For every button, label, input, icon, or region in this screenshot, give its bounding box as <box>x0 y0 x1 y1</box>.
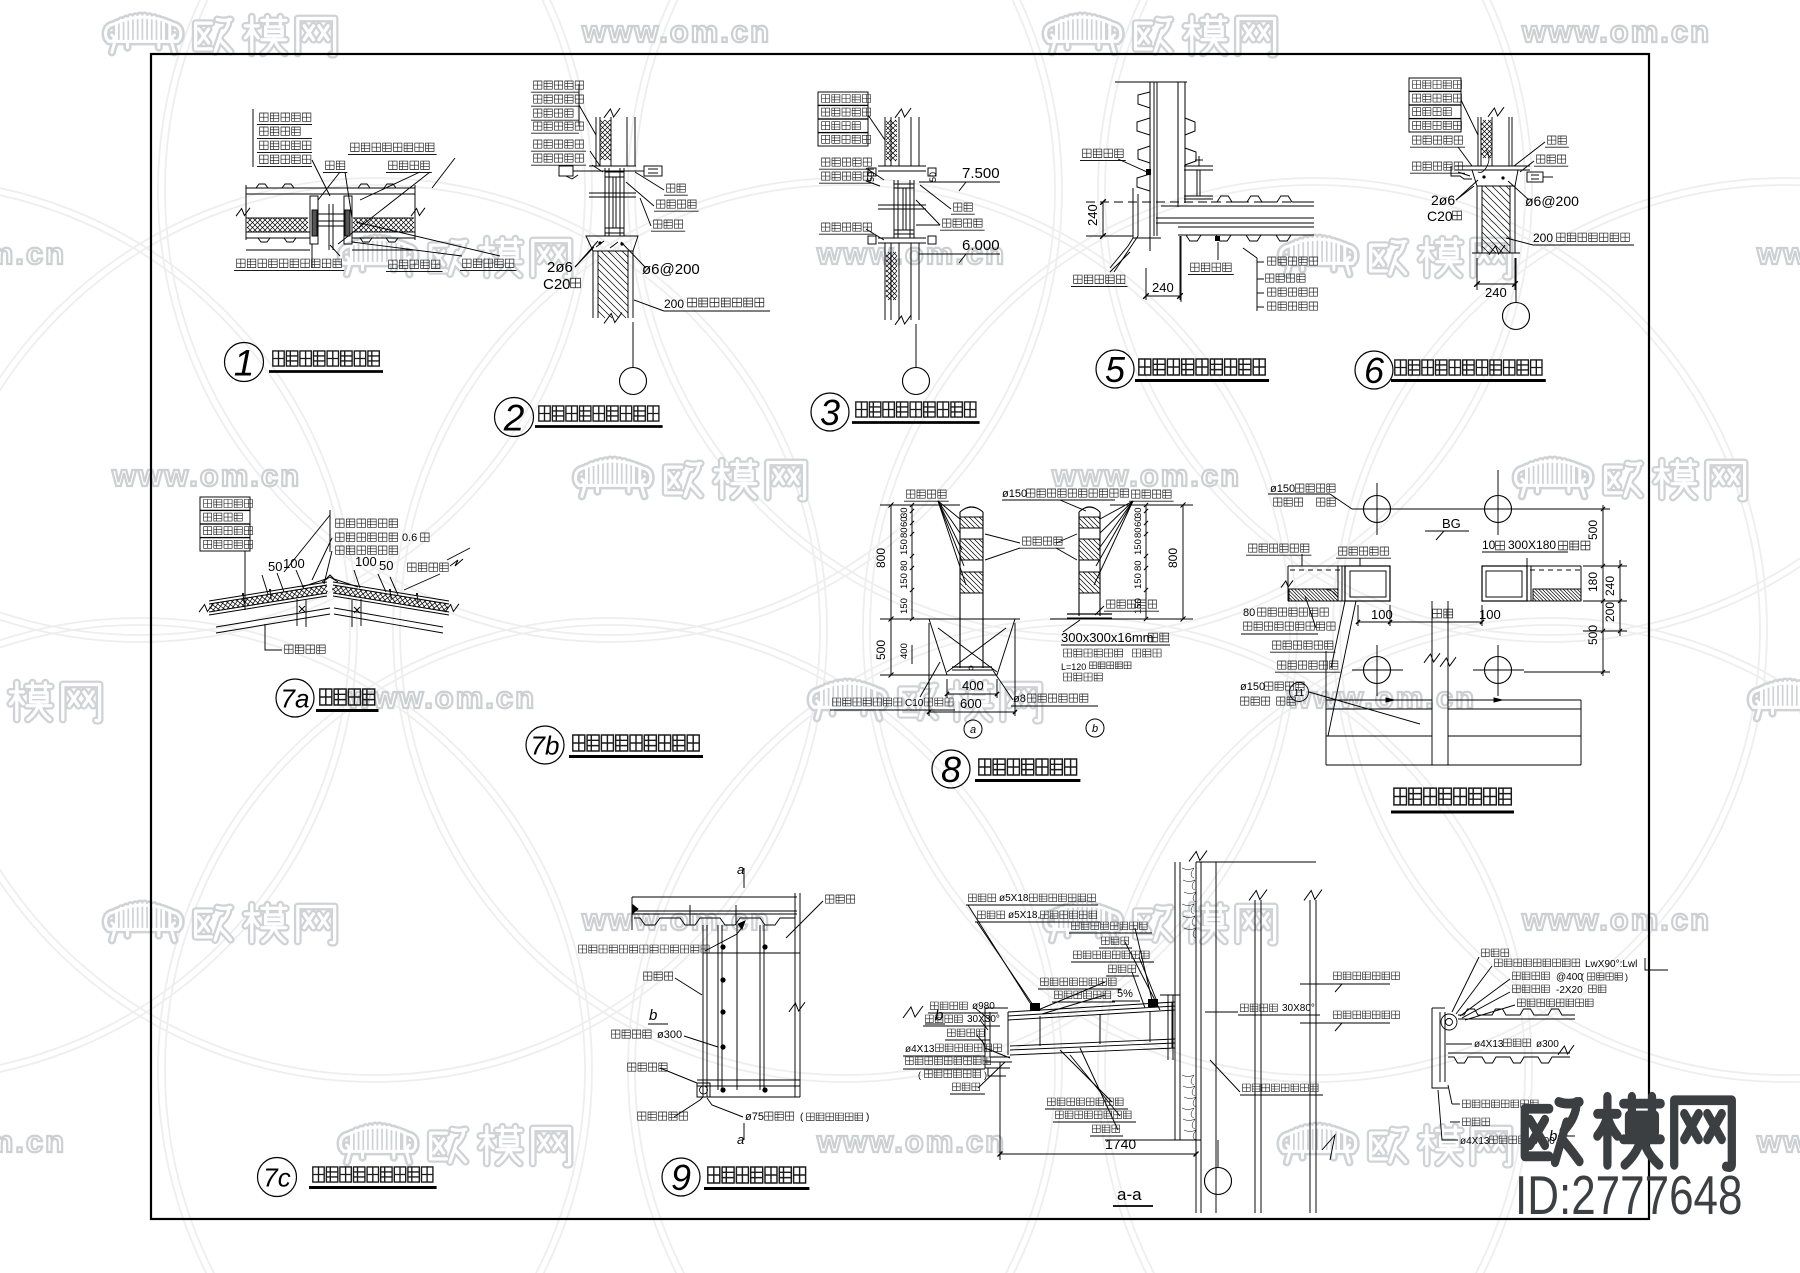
a-a label 自攻螺钉,每胁一颗 2 <box>1041 978 1117 986</box>
detail 7a right end break <box>445 604 459 612</box>
detail 9 label 泛水板 top right <box>826 895 855 903</box>
detail 6 clip symbol right <box>1527 172 1543 182</box>
detail 7a left end break <box>199 604 213 612</box>
detail b label 此处若不是波峰,向上折 LwX90:Lwl <box>1495 959 1580 967</box>
svg-text:150: 150 <box>899 598 910 614</box>
detail 2 label 收边板 <box>654 220 683 228</box>
detail 9 label 天沟伸到头 <box>638 1112 688 1120</box>
detail 3 centerline + node circle <box>915 324 917 368</box>
detail 2 label stack <box>534 81 584 89</box>
svg-text:400: 400 <box>962 678 984 693</box>
svg-text:300x300x16mm: 300x300x16mm <box>1061 630 1154 645</box>
detail 6 label stack boxed <box>1409 78 1461 91</box>
detail 9 label 天沟端板 <box>628 1063 668 1071</box>
detail 1 sill lines below <box>246 249 310 251</box>
detail 5 corner flashing left <box>1110 188 1133 268</box>
detail b gutter edge verticals <box>1439 1012 1441 1082</box>
svg-text:7a: 7a <box>281 683 310 713</box>
detail 5 label 墙面外层板 <box>1257 306 1264 308</box>
a-a right inner verticals <box>1254 900 1256 1213</box>
svg-text:b: b <box>1092 723 1098 735</box>
a-a seal blocks on canopy <box>1030 1003 1040 1011</box>
detail 7a roof insulation hatch right <box>332 585 449 612</box>
svg-text:80: 80 <box>899 560 910 571</box>
a-a canopy slab (sloped 5%) <box>1008 1002 1175 1012</box>
a-a wall verticals right <box>1174 862 1176 1140</box>
svg-text:800: 800 <box>1166 548 1180 568</box>
detail 8 bollard a stripe bands <box>960 516 983 518</box>
a-a label 排水管接弯装在天沟端部 <box>906 1057 991 1065</box>
a-a label 泛水板 lower <box>953 1083 980 1091</box>
a-a label 泛水板 bottom <box>1093 1125 1120 1133</box>
svg-text:@400: @400 <box>1556 972 1583 983</box>
svg-text:L=120: L=120 <box>1061 662 1086 672</box>
detail b label 自攻螺钉@400(无檩条处) <box>1513 972 1550 980</box>
detail b upper corrugated panel <box>1458 1009 1575 1015</box>
detail 6 node circle below <box>1515 258 1517 302</box>
svg-text:400: 400 <box>899 643 910 659</box>
detail 1 window frame right jamb <box>344 196 352 244</box>
a-a label 自攻螺钉,每胁一颗 3 <box>1056 1111 1132 1119</box>
plan steel column box B2 <box>1482 566 1527 601</box>
a-a label 现场下弯30X30 <box>926 1015 963 1023</box>
detail 5 I-beam purlin <box>1184 165 1213 167</box>
detail b label 泛水板 <box>1482 949 1509 957</box>
detail 2 top break <box>604 108 620 118</box>
detail 5 title <box>1096 350 1134 388</box>
detail 3 window head assembly <box>878 165 926 167</box>
detail 9 title <box>662 1158 700 1196</box>
detail 5 label 防水墙头 lower <box>1191 263 1232 271</box>
svg-text:ø300: ø300 <box>1536 1039 1559 1050</box>
detail 2 window frame vertical box <box>604 168 606 236</box>
svg-text:30: 30 <box>1133 507 1144 518</box>
detail b label 止水胶泥-2X20 通长 <box>1513 985 1550 993</box>
detail 7a ridge support verticals <box>296 599 298 626</box>
detail 2 concrete sill block <box>586 236 638 251</box>
a-a label 泛水板 <box>1102 937 1129 945</box>
detail 2 centerline and node circle <box>632 322 634 368</box>
detail 6 sill assembly <box>1455 165 1530 167</box>
svg-text:2ø6: 2ø6 <box>1431 192 1455 208</box>
detail 1 center mullion <box>328 204 330 250</box>
detail 2 window glazing center <box>612 177 614 228</box>
svg-text:2: 2 <box>503 397 525 438</box>
svg-text:ø5X18: ø5X18 <box>999 893 1029 904</box>
detail 5 centerline below <box>1180 236 1182 302</box>
detail 2 label 塑钢窗框 <box>657 200 697 208</box>
plan label 彩色压型墙板 <box>1249 544 1309 552</box>
detail 9 canopy roof slab <box>632 896 797 898</box>
detail 1 bottom leaders <box>330 245 340 256</box>
plan wall band right segment <box>1482 565 1581 567</box>
svg-text:240: 240 <box>1152 280 1174 295</box>
detail 2 right leaders <box>635 172 664 190</box>
svg-text:www.om.cn: www.om.cn <box>1051 458 1241 493</box>
svg-text:9: 9 <box>671 1157 691 1198</box>
plan long diagonal leader <box>1328 601 1356 736</box>
detail 7a label 现场波谷上弯 <box>336 546 398 554</box>
svg-text:www.om.cn: www.om.cn <box>1756 1124 1800 1159</box>
a-a node circle below <box>1217 1140 1219 1167</box>
a-a label 标高详单体设计 2 <box>1334 1011 1400 1019</box>
svg-text:50: 50 <box>268 559 282 574</box>
detail 5 horizontal wall band lines <box>1161 205 1314 207</box>
svg-text:ø4X13: ø4X13 <box>1474 1039 1504 1050</box>
svg-text:60: 60 <box>899 516 910 527</box>
detail 1 label 外墙收边泛水板(看线) <box>237 259 342 267</box>
detail 3 leaders <box>868 115 885 140</box>
detail 5 label 墙面保温棉 <box>1257 292 1264 294</box>
detail 9 gutter left wall <box>702 925 704 1097</box>
detail 5 label 墙面内层板 <box>1257 261 1264 263</box>
svg-text:www.om.cn: www.om.cn <box>0 236 66 271</box>
plan lower bollard circle C4 <box>1485 657 1512 684</box>
detail 3 label 防水密封胶 <box>822 158 872 166</box>
detail 6 wall verticals <box>1477 117 1479 166</box>
svg-text:150: 150 <box>899 573 910 589</box>
detail 9 screw dots <box>720 944 725 949</box>
detail 7a right roof slope lines <box>333 582 449 601</box>
detail 7b title only - lighting panel cross-slope lap node <box>526 726 564 764</box>
detail 8 left dim chain outer 800/500 <box>890 505 892 675</box>
plan lower bollard circle C3 <box>1364 657 1391 684</box>
svg-text:50: 50 <box>928 172 938 182</box>
svg-text:200: 200 <box>1533 231 1553 245</box>
a-a label 密封条 <box>1109 965 1136 973</box>
detail 7a leader bracket <box>329 510 331 552</box>
svg-text:100: 100 <box>283 556 305 571</box>
svg-text:50: 50 <box>379 558 393 573</box>
detail 2 mid horizontals <box>589 192 636 194</box>
svg-text:www.om.cn: www.om.cn <box>1521 902 1711 937</box>
detail 2 label 收边泛水板 <box>534 154 584 162</box>
detail 9 post verticals <box>717 925 719 1090</box>
detail 7a screw ticks on roof <box>243 595 244 603</box>
svg-text:3: 3 <box>820 392 840 433</box>
detail b rolled edge circle <box>1441 1014 1457 1030</box>
svg-text:30X80°: 30X80° <box>1282 1003 1315 1014</box>
svg-text:www.om.cn: www.om.cn <box>1756 236 1800 271</box>
detail 7a label 屋脊收边盖板 0.6厚 <box>336 533 398 541</box>
detail 1 insulation crosshatch right <box>353 218 414 232</box>
detail 8 pit trapezoid <box>929 619 1015 675</box>
svg-text:5: 5 <box>1105 349 1126 390</box>
detail 3 insulation crosshatch upper <box>886 120 897 161</box>
detail 6 concrete sill block <box>1472 170 1518 186</box>
detail 1 label 墙面保温棉 <box>260 141 311 149</box>
detail 1 leaders <box>312 160 330 196</box>
drawing sheet border frame <box>151 54 1649 1219</box>
detail 1 wall edge verticals <box>245 185 247 240</box>
detail 8 ground line b <box>1050 618 1185 620</box>
svg-text:7.500: 7.500 <box>962 165 1000 182</box>
detail b label 自攻螺钉,每肋一颗 <box>1518 999 1594 1007</box>
plan wall band left segment <box>1288 565 1390 567</box>
plan title <box>1394 788 1511 805</box>
detail 5 label 转角封边板 <box>1074 275 1125 283</box>
detail 8 dim 400 600 below pit <box>946 679 948 698</box>
detail 2 sill flashing assembly <box>589 165 636 167</box>
plan right dim chains <box>1602 505 1604 676</box>
detail 3 label 铝合金窗 <box>943 219 983 227</box>
a-a canopy-wall connection plate <box>1167 995 1169 1060</box>
svg-text:100: 100 <box>355 554 377 569</box>
detail 7c title - lighting panel down-slope lap node <box>258 1158 297 1197</box>
svg-text:ø6@200: ø6@200 <box>1525 193 1579 209</box>
detail 2 brick wall hatched <box>592 251 594 318</box>
detail 7a bottom chords <box>216 608 330 627</box>
detail 7a roof insulation hatch left <box>209 585 328 612</box>
detail 3 mid horizontals <box>878 204 926 206</box>
svg-text:150: 150 <box>1133 573 1144 589</box>
a-a label 自攻螺钉,等胁一颗 <box>1072 922 1148 930</box>
detail 8 pit cross bracing <box>938 628 997 672</box>
detail 1 window frame left jamb <box>310 196 318 244</box>
detail 2 lower window sill <box>589 235 638 237</box>
svg-text:5%: 5% <box>1117 988 1133 1000</box>
svg-text:ø4X13: ø4X13 <box>1460 1136 1490 1147</box>
svg-text:a: a <box>970 724 976 736</box>
big site ID text <box>1515 1164 1742 1226</box>
detail 6 brick wall hatched <box>1476 186 1478 253</box>
detail 8 section mark b <box>1086 719 1104 737</box>
plan label 彩色压型墙板 lower <box>1273 641 1333 649</box>
detail 7a label 现场切口下弯 <box>336 519 398 527</box>
svg-text:500: 500 <box>874 640 888 660</box>
detail 5 vertical dim 240 <box>1102 202 1104 236</box>
detail 2 brick wall break <box>604 313 622 324</box>
a-a label 自攻螺钉,隔胁一颗 <box>1048 1098 1124 1106</box>
detail 1 label 墙面内层板 <box>260 113 311 121</box>
detail b bottom labels <box>1463 1100 1539 1108</box>
a-a corner mark right <box>1322 1135 1335 1160</box>
svg-text:100: 100 <box>1371 607 1393 622</box>
svg-text:-2X20: -2X20 <box>1556 985 1583 996</box>
svg-text:): ) <box>866 1112 869 1123</box>
svg-text:60: 60 <box>1133 516 1144 527</box>
detail 6 label 收边泛水板 <box>1413 162 1463 170</box>
detail 5 horizontal dim 240 <box>1145 268 1147 300</box>
svg-text:240: 240 <box>1603 576 1617 596</box>
a-a label 标高详单体设计 1 <box>1334 972 1400 980</box>
detail 5 left corrugated profile <box>1137 92 1150 191</box>
svg-text:150: 150 <box>1133 539 1144 555</box>
detail 2 title <box>495 398 534 437</box>
detail 8 label 黑色漆带 center <box>1023 537 1063 545</box>
svg-text:6: 6 <box>1364 350 1385 391</box>
detail 7a label 防水墙头 with break <box>408 563 449 571</box>
detail 3 bottom sill <box>878 237 926 239</box>
detail 8 right dim chain outer 800 <box>1182 505 1184 619</box>
a-a dim 1740 <box>999 1062 1001 1160</box>
svg-text:ø150: ø150 <box>1270 483 1295 495</box>
a-a label 现场上弯30X80 <box>1241 1004 1278 1012</box>
a-a top break marks <box>1189 851 1207 862</box>
svg-text:C20: C20 <box>1427 208 1453 224</box>
svg-text:ø5X18,: ø5X18, <box>1008 910 1040 921</box>
svg-text:www.om.cn: www.om.cn <box>581 14 771 49</box>
detail 8 bollard b column <box>1078 512 1080 616</box>
detail 8 section mark a <box>964 720 982 738</box>
detail 9 soffit line <box>703 952 800 954</box>
svg-text:ø980: ø980 <box>972 1001 995 1012</box>
detail 7a label 轻钢屋架 <box>285 645 326 653</box>
svg-text:30X30°: 30X30° <box>967 1014 1000 1025</box>
detail 7a left roof slope lines <box>209 582 327 601</box>
svg-text:80: 80 <box>1133 560 1144 571</box>
plan bollard circle C2 with crosshair <box>1485 496 1512 523</box>
svg-text:2ø6: 2ø6 <box>547 259 573 276</box>
detail 8 left dim chain inner <box>911 505 913 619</box>
a-a label 拉铆钉ø5X18,每个波谷两颗 <box>978 911 1005 919</box>
svg-text:500: 500 <box>1586 625 1600 645</box>
detail 7a ridge cap <box>302 575 358 587</box>
detail 6 label 檩条 <box>1548 136 1567 144</box>
detail 1 wall top panel lines <box>246 187 415 189</box>
detail 1 wall bottom panel lines <box>246 231 310 233</box>
svg-text:240: 240 <box>1485 285 1507 300</box>
plan steel column box B1 <box>1345 566 1390 601</box>
detail 8 base plate b <box>1067 613 1112 615</box>
detail 8 label 方墩埋入地下浇C10混凝土 <box>833 698 902 706</box>
detail 1 label 收边泛水板 <box>463 259 514 267</box>
detail 6 label 收边板 <box>1537 155 1566 163</box>
svg-text:C10: C10 <box>905 698 924 709</box>
svg-text:LwX90°:Lwl: LwX90°:Lwl <box>1585 959 1637 970</box>
a-a label 自攻螺钉,每胁一颗 right <box>1243 1084 1319 1092</box>
detail 8 right dim chain inner <box>1145 505 1147 619</box>
detail 6 leaders <box>1461 100 1478 135</box>
plan insulation strip left <box>1289 589 1338 601</box>
detail 5 label 墙面檩条 <box>1257 278 1264 280</box>
detail 8 bollard a column <box>959 512 961 668</box>
detail 9 gutter bottom <box>697 1079 800 1081</box>
detail 1 break marks <box>236 208 250 216</box>
svg-text:80: 80 <box>1133 527 1144 538</box>
detail 6 title <box>1355 351 1393 389</box>
a-a leaders from left labels <box>968 905 1030 1003</box>
svg-text:BG: BG <box>1442 516 1461 531</box>
detail 2 wall verticals upper <box>595 117 597 166</box>
detail 1 window glazing lines <box>318 213 344 215</box>
detail 9 label 与墙板之间要打搭封胶不得渗水 <box>579 945 710 953</box>
svg-text:ID:2777648: ID:2777648 <box>1515 1164 1742 1226</box>
svg-text:(: ( <box>918 1070 921 1080</box>
detail 8 note lines below <box>1064 649 1123 657</box>
svg-text:): ) <box>984 1070 987 1080</box>
plan label 彩色泛水板 <box>1339 547 1389 555</box>
detail 6 label 防水密封胶 <box>1413 136 1463 144</box>
svg-text:ø6@200: ø6@200 <box>642 261 700 278</box>
svg-text:ø150: ø150 <box>1240 681 1265 693</box>
detail 8 title <box>932 750 970 788</box>
detail 5 right label bracket <box>1256 258 1258 311</box>
a-a label 拉铆钉ø5X18(每根拉条三颗) <box>969 894 996 902</box>
detail 3 wall below window <box>884 243 886 320</box>
detail 3 wall verticals upper <box>884 117 886 166</box>
detail 9 right wall verticals <box>794 893 796 1097</box>
detail 8 ground line a <box>925 618 1020 620</box>
detail 8 label 黄色漆带 right <box>1132 490 1172 498</box>
detail 7a label stack boxed <box>200 497 250 510</box>
svg-text:10: 10 <box>1482 538 1496 552</box>
svg-text:7b: 7b <box>531 730 560 760</box>
detail 5 right corrugated profile <box>1185 118 1196 165</box>
detail 8 label 黄色漆带 left <box>907 490 947 498</box>
a-a label 自攻螺钉,每胁一颗 <box>1074 951 1150 959</box>
svg-text:600: 600 <box>960 696 982 711</box>
plan lower wall lines <box>1326 699 1432 701</box>
detail 1 label 墙面外层板 <box>260 155 311 163</box>
detail b leader fan <box>1452 957 1479 1012</box>
svg-text:8: 8 <box>941 749 961 790</box>
detail 5 top edge line <box>1115 81 1187 83</box>
a-a wall insulation wavy strip upper <box>1182 868 1196 938</box>
svg-text:): ) <box>1625 972 1628 982</box>
detail 5 dashed center line <box>1086 201 1314 203</box>
svg-text:0.6: 0.6 <box>402 532 417 544</box>
svg-text:www.om.cn: www.om.cn <box>111 458 301 493</box>
detail 1 label 墙面檩条 <box>260 127 301 135</box>
detail 1 label 内墙收边板(看线) <box>351 143 434 151</box>
svg-text:ø150: ø150 <box>1002 488 1027 500</box>
svg-text:11: 11 <box>1294 688 1305 699</box>
svg-text:b: b <box>1549 1128 1557 1145</box>
svg-text:500: 500 <box>1586 520 1600 540</box>
plan lower block <box>1326 735 1432 737</box>
svg-text:150: 150 <box>899 539 910 555</box>
svg-text:ø4X13: ø4X13 <box>905 1044 935 1055</box>
svg-text:30: 30 <box>899 507 910 518</box>
detail 3 window frame box <box>893 180 895 238</box>
svg-text:www.om.cn: www.om.cn <box>816 1124 1006 1159</box>
detail 3 title <box>811 393 849 431</box>
a-a label 雨蓬天沟 <box>948 1029 985 1037</box>
big site logo 欧模网 dark bottom right <box>1525 1102 1580 1162</box>
svg-text:240: 240 <box>1085 204 1100 226</box>
plan insulation strip right <box>1533 589 1581 601</box>
detail 8 bollard b stripes <box>1079 516 1100 518</box>
detail 9 label 泛水板 left <box>644 972 673 980</box>
detail 1 title circle and text <box>225 343 264 382</box>
a-a bottom ground line <box>1105 1139 1201 1141</box>
svg-text:a: a <box>737 862 744 877</box>
svg-text:6.000: 6.000 <box>962 237 1000 254</box>
a-a label 天沟拉条ø980 <box>931 1002 968 1010</box>
svg-text:7c: 7c <box>263 1162 290 1192</box>
svg-text:180: 180 <box>1586 572 1600 592</box>
detail 1 label 塑钢窗框 <box>389 161 430 169</box>
detail 5 top wave profile right <box>1211 196 1312 202</box>
svg-text:www.om.cn: www.om.cn <box>0 1124 66 1159</box>
detail 2 leaders top <box>579 105 596 135</box>
svg-text:ø300: ø300 <box>657 1029 682 1041</box>
svg-text:C20: C20 <box>543 276 571 293</box>
a-a label 密封条,密封胶 <box>1055 991 1111 999</box>
detail 3 label 防水窗封胶 (lower) <box>822 223 872 231</box>
detail 1 label 防水窗封胶 <box>389 260 440 268</box>
detail 6 insulation crosshatch column <box>1481 120 1492 158</box>
detail 8 label 与钢板焊接 <box>1107 600 1157 608</box>
svg-text:80: 80 <box>899 527 910 538</box>
detail 2 label 檩条 <box>667 184 686 192</box>
svg-text:50: 50 <box>866 172 876 182</box>
svg-text:www.om.cn: www.om.cn <box>1521 14 1711 49</box>
detail 3 label 收边泛水板 <box>822 172 872 180</box>
svg-text:1: 1 <box>234 342 255 383</box>
plan door leaf verticals with break <box>1431 601 1433 765</box>
